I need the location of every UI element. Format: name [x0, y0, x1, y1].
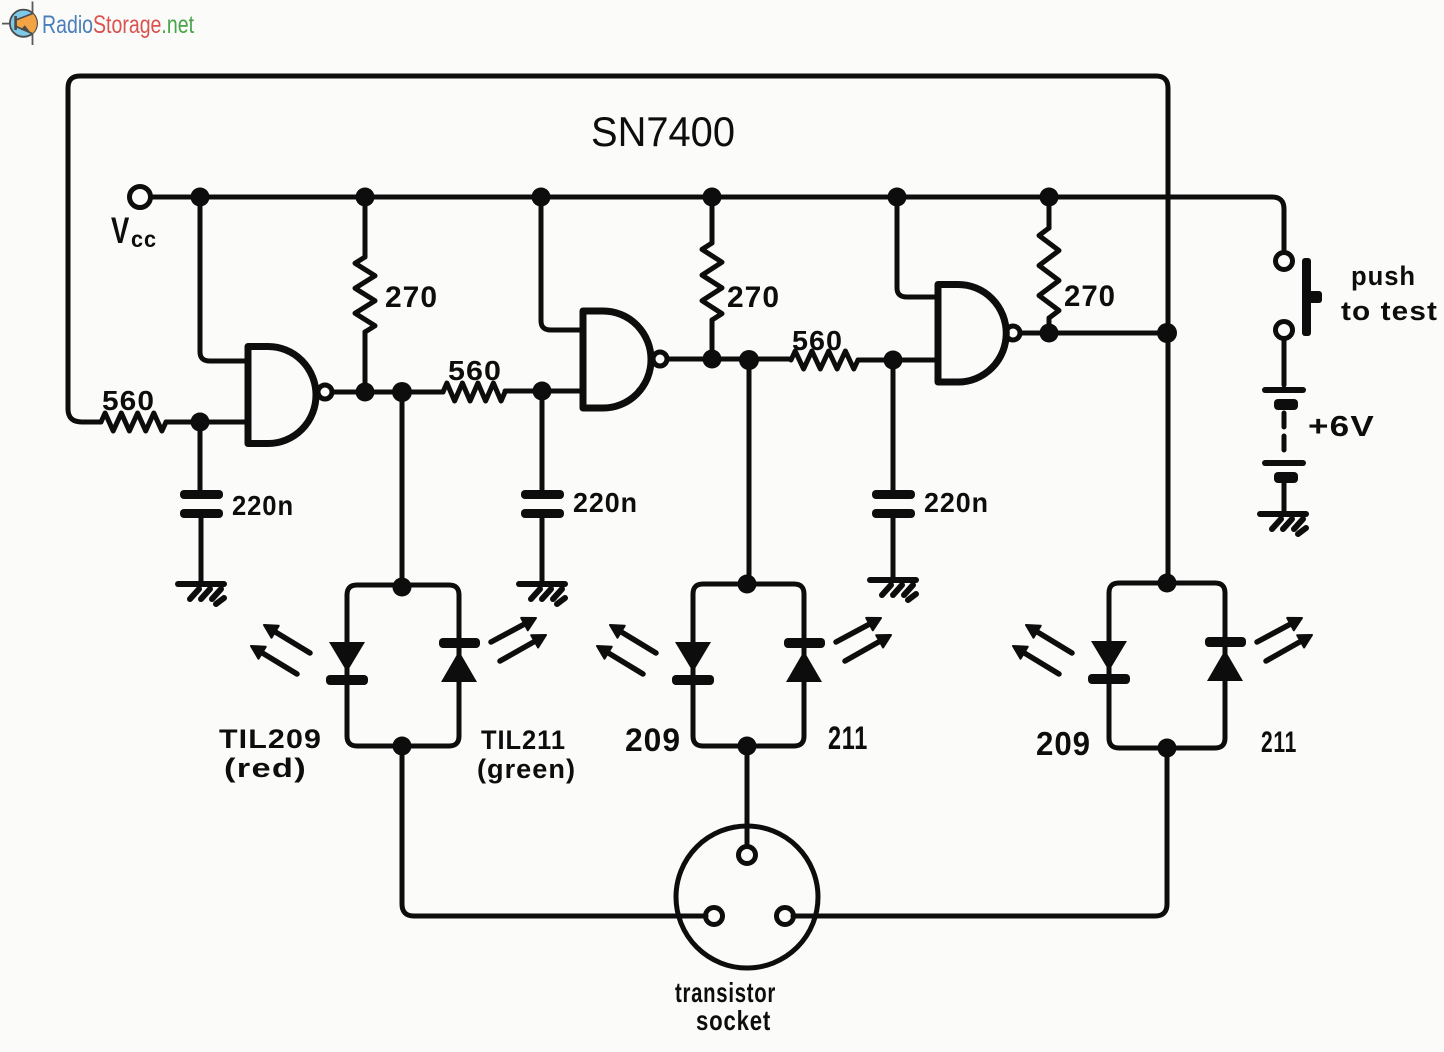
light arrow p2 R1 — [836, 618, 881, 642]
light arrow p2 L1 — [610, 625, 656, 653]
resistor R1 560 left — [101, 413, 166, 431]
svg-text:560: 560 — [792, 325, 843, 356]
wire battery dashed middle — [1282, 413, 1287, 458]
node gate3 out j2 — [1157, 323, 1177, 343]
node led3 top — [1158, 574, 1177, 593]
ground battery — [1260, 514, 1306, 534]
node gate1 out j2 — [392, 382, 412, 402]
GATES — [248, 285, 1006, 444]
light arrow p1 R1 — [491, 618, 536, 642]
LED D5 209 (pointing down) — [1091, 641, 1127, 671]
LED pair 2 box — [693, 584, 804, 746]
node gate2 in j — [533, 382, 552, 401]
svg-text:RadioStorage.net: RadioStorage.net — [42, 11, 194, 39]
ground C3 — [870, 580, 916, 600]
light arrow p1 R2 — [500, 635, 546, 661]
wire cap C2 drop — [540, 391, 545, 490]
svg-text:270: 270 — [385, 281, 438, 314]
light arrow p1 L1 — [264, 625, 310, 653]
svg-text:to test: to test — [1341, 296, 1438, 326]
svg-text:transistor: transistor — [675, 977, 776, 1008]
node gate1 output bubble — [318, 385, 332, 399]
LOGO RadioStorage.net — [2, 2, 194, 46]
node led1 bottom — [393, 737, 412, 756]
socket pin top — [739, 847, 756, 864]
svg-text:209: 209 — [625, 722, 681, 758]
svg-text:socket: socket — [696, 1005, 771, 1036]
svg-text:220n: 220n — [924, 487, 989, 518]
svg-text:(red): (red) — [224, 753, 307, 783]
svg-text:270: 270 — [1064, 280, 1116, 313]
wire gate2 input A feed — [541, 197, 583, 330]
svg-text:+6V: +6V — [1308, 411, 1375, 443]
wire 560 to gate3 input B — [858, 358, 936, 363]
wire bottom rail left — [402, 746, 706, 916]
node led2 bottom — [738, 737, 757, 756]
LED pair 1 box — [347, 585, 459, 746]
wire 270-1 top lead — [363, 197, 368, 257]
resistor R5 560 — [791, 351, 858, 369]
svg-text:270: 270 — [727, 281, 780, 314]
resistor R6 270 — [1039, 228, 1059, 318]
resistor R2 270 — [355, 257, 375, 332]
ground C2 — [519, 584, 565, 604]
svg-text:SN7400: SN7400 — [591, 108, 735, 155]
LED pair 3 box — [1109, 583, 1225, 748]
node gate3 output bubble — [1006, 326, 1020, 340]
svg-text:560: 560 — [448, 355, 502, 386]
node rail j4 — [703, 188, 722, 207]
node gate2 out j2 — [739, 350, 759, 370]
wire cap C1 drop — [198, 422, 203, 490]
battery B1 +6V — [1262, 387, 1306, 483]
light arrow p3 R2 — [1266, 635, 1312, 661]
wire gate1 output — [332, 390, 443, 395]
LED D1 TIL209 red (pointing down) — [329, 642, 365, 672]
svg-text:220n: 220n — [573, 487, 638, 518]
wire gate1 input A feed — [200, 197, 248, 361]
capacitor C2 220n — [521, 490, 564, 499]
node gate2 out j1 — [703, 350, 722, 369]
wire C3 to ground — [891, 518, 896, 578]
ground C1 — [178, 584, 224, 604]
wire outer feedback loop (gate3 output to left 560) — [68, 76, 1168, 582]
light arrow p3 L1 — [1026, 625, 1072, 653]
node rail j3 — [532, 188, 551, 207]
op-amp U1c NAND gate 3 — [938, 285, 1006, 383]
svg-text:(green): (green) — [477, 754, 576, 784]
wire bottom rail right — [793, 748, 1167, 916]
node Vcc terminal — [130, 187, 151, 208]
wire 270-2 top lead — [710, 197, 715, 243]
node led2 top — [738, 575, 757, 594]
light arrow p2 L2 — [597, 646, 643, 674]
wire gate3 input A feed — [897, 197, 936, 297]
wire battery to ground — [1282, 483, 1287, 512]
socket pin left — [706, 908, 723, 925]
LED D2 TIL211 green (pointing up) — [439, 638, 480, 648]
wire 270-3 bottom lead — [1047, 318, 1052, 333]
wire gate2 output — [667, 357, 791, 362]
wire 270-1 bottom lead — [363, 332, 368, 392]
socket pin right — [777, 908, 794, 925]
svg-text:211: 211 — [828, 720, 868, 756]
node led1 top — [393, 578, 412, 597]
svg-text:cc: cc — [131, 226, 157, 252]
node gate1 out j1 — [356, 383, 375, 402]
node gate1 in j — [191, 413, 210, 432]
wire gate3 output — [1021, 331, 1168, 336]
svg-text:TIL211: TIL211 — [481, 725, 566, 755]
svg-text:TIL209: TIL209 — [219, 724, 322, 754]
light arrow p3 L2 — [1013, 646, 1059, 674]
node switch terminal bottom — [1276, 322, 1293, 339]
wire Vcc rail — [152, 197, 1284, 252]
LED D4 211 (pointing up) — [784, 638, 825, 648]
light arrow p1 L2 — [251, 646, 297, 674]
op-amp U1b NAND gate 2 — [583, 311, 651, 408]
node rail j6 — [1040, 188, 1059, 207]
node gate2 output bubble — [653, 352, 667, 366]
switch S1 push to test — [1302, 258, 1322, 336]
node gate3 in j — [884, 351, 903, 370]
wire LED pair2 drop — [747, 360, 752, 584]
svg-text:V: V — [111, 210, 130, 251]
node led3 bottom — [1158, 739, 1177, 758]
svg-text:220n: 220n — [232, 490, 294, 521]
capacitor C3 220n — [872, 490, 915, 499]
node gate3 out j1 — [1040, 324, 1059, 343]
resistor R4 270 — [702, 243, 722, 320]
node rail j1 — [191, 188, 210, 207]
wire 560 to gate1 input B — [166, 420, 248, 425]
light arrow p2 R2 — [845, 635, 891, 661]
svg-text:push: push — [1351, 261, 1416, 291]
light arrow p3 R1 — [1257, 618, 1302, 642]
LED D3 209 (pointing down) — [675, 642, 711, 672]
svg-text:211: 211 — [1261, 726, 1297, 759]
resistor R3 560 — [443, 383, 505, 401]
node switch terminal top — [1276, 253, 1293, 270]
wire cap C3 drop — [891, 360, 896, 490]
wire 270-3 top lead — [1047, 197, 1052, 228]
node rail j5 — [888, 188, 907, 207]
wire socket top pin lead — [745, 746, 750, 846]
wire LED pair1 drop — [400, 392, 405, 585]
wire switch to battery — [1282, 339, 1287, 385]
capacitor C1 220n — [180, 490, 223, 499]
LED D6 211 (pointing up) — [1205, 637, 1246, 647]
wire C1 to ground — [199, 518, 204, 582]
wire 270-2 bottom lead — [710, 320, 715, 359]
wire C2 to ground — [540, 518, 545, 582]
svg-text:209: 209 — [1036, 725, 1091, 762]
svg-text:560: 560 — [102, 385, 155, 416]
op-amp U1a NAND gate 1 — [248, 347, 316, 444]
wire 560 to gate2 input B — [505, 389, 583, 394]
node rail j2 — [356, 188, 375, 207]
